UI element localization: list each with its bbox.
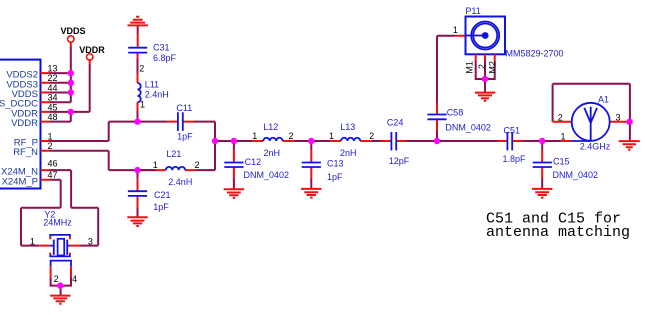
svg-text:2.4GHz: 2.4GHz — [580, 142, 611, 152]
svg-text:1.8pF: 1.8pF — [503, 154, 527, 164]
svg-text:2nH: 2nH — [340, 148, 357, 158]
svg-text:2.4nH: 2.4nH — [168, 177, 192, 187]
svg-text:C51: C51 — [504, 125, 521, 135]
svg-text:1: 1 — [48, 131, 53, 141]
svg-text:2.4nH: 2.4nH — [145, 89, 169, 99]
svg-text:22: 22 — [48, 73, 58, 83]
svg-text:24MHz: 24MHz — [43, 217, 72, 227]
svg-text:1: 1 — [140, 100, 145, 110]
svg-text:46: 46 — [48, 159, 58, 169]
svg-text:C58: C58 — [447, 107, 464, 117]
svg-text:1pF: 1pF — [177, 132, 193, 142]
svg-text:M2: M2 — [487, 61, 497, 74]
svg-text:1: 1 — [153, 160, 158, 170]
svg-text:X24M_P: X24M_P — [2, 176, 38, 187]
svg-text:2: 2 — [369, 131, 374, 141]
svg-text:2: 2 — [195, 160, 200, 170]
svg-text:P11: P11 — [465, 6, 480, 16]
svg-text:2: 2 — [477, 64, 487, 69]
svg-text:L21: L21 — [166, 149, 181, 159]
svg-text:3: 3 — [616, 112, 621, 122]
svg-text:13: 13 — [48, 64, 58, 74]
svg-text:2: 2 — [139, 63, 144, 73]
svg-text:1: 1 — [561, 131, 566, 141]
svg-text:1pF: 1pF — [327, 172, 343, 182]
svg-text:MM5829-2700: MM5829-2700 — [506, 48, 564, 58]
svg-text:34: 34 — [48, 93, 58, 103]
svg-text:C12: C12 — [245, 157, 262, 167]
svg-text:L13: L13 — [340, 122, 355, 132]
svg-text:47: 47 — [48, 170, 58, 180]
svg-text:1: 1 — [252, 131, 257, 141]
svg-text:6.8pF: 6.8pF — [153, 53, 177, 63]
svg-text:12pF: 12pF — [389, 156, 410, 166]
svg-text:48: 48 — [48, 112, 58, 122]
svg-text:4: 4 — [72, 274, 77, 284]
svg-text:2: 2 — [558, 112, 563, 122]
svg-text:C15: C15 — [553, 156, 570, 166]
svg-text:2: 2 — [289, 131, 294, 141]
svg-text:1: 1 — [329, 131, 334, 141]
svg-text:antenna matching: antenna matching — [486, 224, 630, 241]
svg-text:3: 3 — [88, 236, 93, 246]
svg-text:1pF: 1pF — [153, 202, 169, 212]
svg-text:L12: L12 — [263, 122, 278, 132]
svg-text:C21: C21 — [154, 190, 171, 200]
svg-text:2nH: 2nH — [264, 148, 281, 158]
svg-text:VDDS: VDDS — [61, 26, 86, 36]
svg-text:2: 2 — [54, 274, 59, 284]
svg-text:RF_N: RF_N — [13, 147, 38, 158]
svg-text:44: 44 — [48, 83, 58, 93]
svg-text:DNM_0402: DNM_0402 — [244, 170, 290, 180]
svg-text:A1: A1 — [598, 94, 609, 104]
svg-text:DNM_0402: DNM_0402 — [445, 122, 491, 132]
svg-text:DNM_0402: DNM_0402 — [553, 170, 599, 180]
svg-text:VDDR: VDDR — [79, 45, 105, 55]
svg-text:C13: C13 — [327, 158, 344, 168]
svg-text:C31: C31 — [153, 43, 170, 53]
svg-text:1: 1 — [30, 236, 35, 246]
svg-text:C11: C11 — [176, 103, 192, 113]
svg-text:M1: M1 — [465, 61, 475, 74]
svg-text:VDDR: VDDR — [11, 118, 38, 129]
svg-text:45: 45 — [48, 102, 58, 112]
svg-text:C24: C24 — [387, 117, 404, 127]
svg-text:2: 2 — [48, 141, 53, 151]
svg-text:L11: L11 — [145, 80, 159, 90]
svg-text:1: 1 — [453, 25, 458, 35]
